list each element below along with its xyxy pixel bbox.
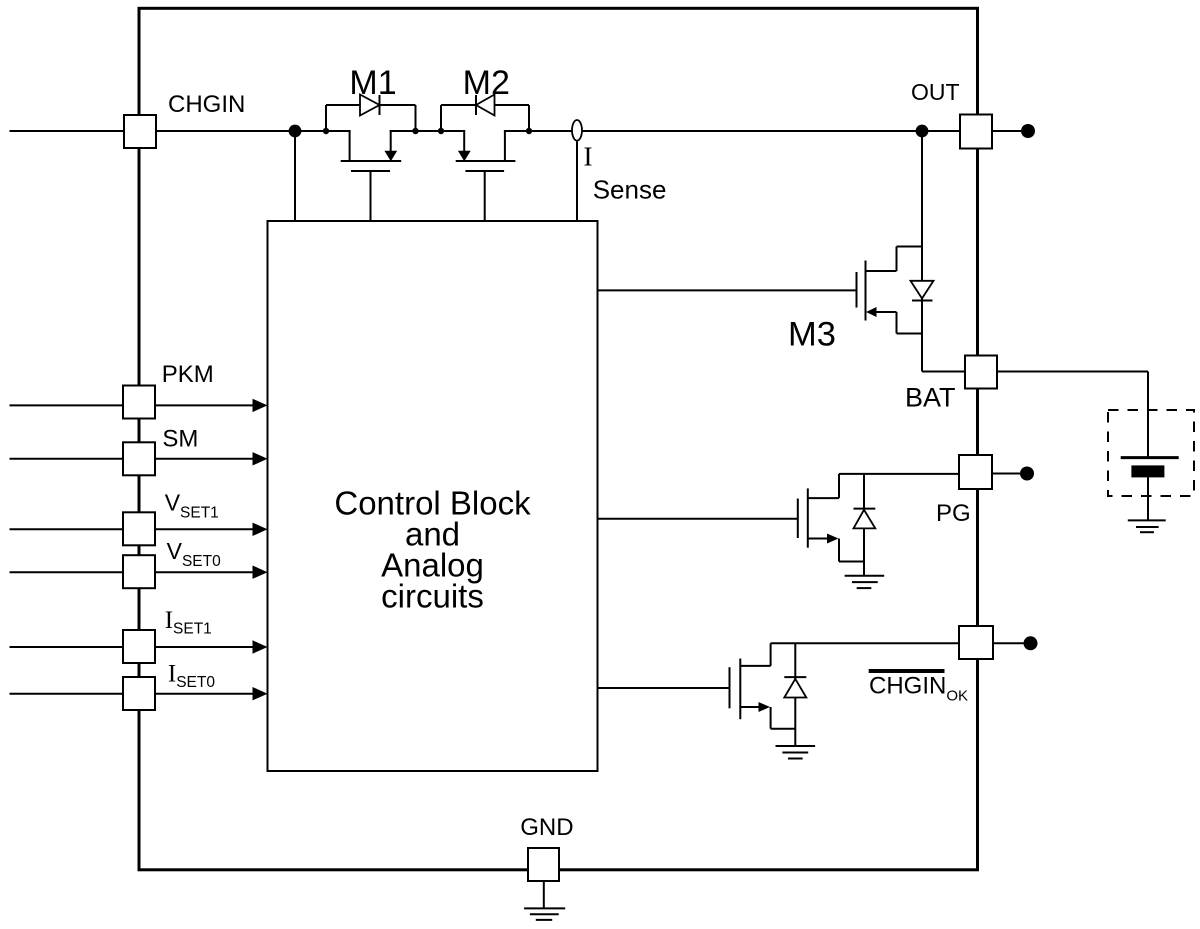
svg-text:M3: M3 [788, 315, 836, 353]
svg-text:CHGIN: CHGIN [168, 91, 245, 118]
svg-text:VSET0: VSET0 [167, 538, 221, 570]
svg-text:ISET0: ISET0 [168, 660, 215, 691]
svg-text:BAT: BAT [905, 383, 956, 413]
svg-text:I: I [584, 141, 593, 171]
svg-text:PG: PG [936, 500, 971, 527]
svg-text:Sense: Sense [593, 175, 667, 205]
svg-text:SM: SM [162, 425, 198, 452]
svg-text:GND: GND [520, 814, 573, 841]
svg-text:VSET1: VSET1 [165, 489, 219, 521]
svg-text:OUT: OUT [911, 79, 960, 105]
svg-text:CHGINOK: CHGINOK [869, 673, 968, 705]
svg-text:PKM: PKM [162, 361, 214, 388]
svg-text:ISET1: ISET1 [165, 607, 212, 638]
svg-text:M2: M2 [463, 64, 510, 102]
svg-text:circuits: circuits [381, 578, 484, 615]
svg-text:M1: M1 [349, 64, 396, 102]
